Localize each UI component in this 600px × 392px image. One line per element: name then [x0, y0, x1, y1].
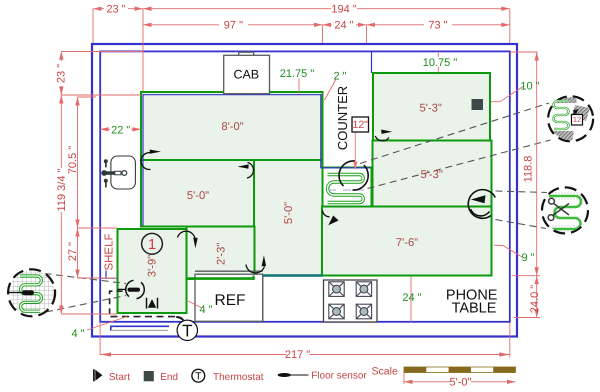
svg-text:5'-3": 5'-3"	[421, 169, 443, 181]
svg-text:2'-3": 2'-3"	[216, 243, 228, 265]
svg-text:10 ": 10 "	[520, 80, 539, 92]
svg-text:1: 1	[148, 237, 156, 253]
svg-text:5'-0": 5'-0"	[450, 377, 472, 389]
svg-text:5'-0": 5'-0"	[283, 202, 295, 224]
svg-text:Scale: Scale	[372, 365, 398, 377]
svg-text:10.75 ": 10.75 "	[423, 57, 458, 69]
svg-text:2 ": 2 "	[333, 70, 346, 82]
svg-text:23 ": 23 "	[106, 4, 125, 16]
svg-text:12: 12	[573, 115, 581, 124]
svg-text:22 ": 22 "	[111, 124, 130, 136]
svg-text:Thermostat: Thermostat	[213, 372, 264, 383]
svg-text:REF: REF	[215, 292, 246, 309]
svg-text:COUNTER: COUNTER	[335, 86, 350, 150]
svg-text:End: End	[160, 372, 178, 383]
svg-text:23 ": 23 "	[56, 64, 68, 83]
svg-text:24 ": 24 "	[402, 292, 421, 304]
svg-text:97 ": 97 "	[224, 20, 243, 32]
svg-text:24.0 ": 24.0 "	[529, 285, 541, 313]
svg-text:73 ": 73 "	[428, 20, 447, 32]
svg-text:CAB: CAB	[233, 68, 259, 82]
svg-text:4 ": 4 "	[199, 304, 212, 316]
svg-text:70.5 ": 70.5 "	[67, 146, 79, 174]
svg-text:T: T	[182, 321, 192, 340]
svg-text:T: T	[195, 371, 202, 383]
svg-text:5'-3": 5'-3"	[420, 103, 442, 115]
svg-text:3'-9": 3'-9"	[147, 255, 159, 277]
svg-text:217 ": 217 "	[285, 349, 310, 361]
svg-text:SHELF: SHELF	[103, 233, 115, 270]
svg-text:12": 12"	[352, 119, 368, 131]
svg-text:27 ": 27 "	[67, 242, 79, 261]
svg-text:194 ": 194 "	[331, 4, 356, 16]
svg-text:7'-6": 7'-6"	[396, 237, 418, 249]
svg-text:Start: Start	[109, 372, 130, 383]
svg-text:9 ": 9 "	[521, 252, 534, 264]
svg-text:118.8: 118.8	[523, 156, 535, 183]
svg-text:4 ": 4 "	[71, 328, 84, 340]
svg-text:24 ": 24 "	[334, 20, 353, 32]
svg-text:5'-0": 5'-0"	[187, 190, 209, 202]
svg-text:119 3/4 ": 119 3/4 "	[56, 168, 68, 211]
svg-text:TABLE: TABLE	[452, 301, 497, 317]
svg-text:8'-0": 8'-0"	[221, 121, 243, 133]
svg-text:21.75 ": 21.75 "	[280, 68, 315, 80]
svg-text:Floor sensor: Floor sensor	[311, 371, 367, 382]
